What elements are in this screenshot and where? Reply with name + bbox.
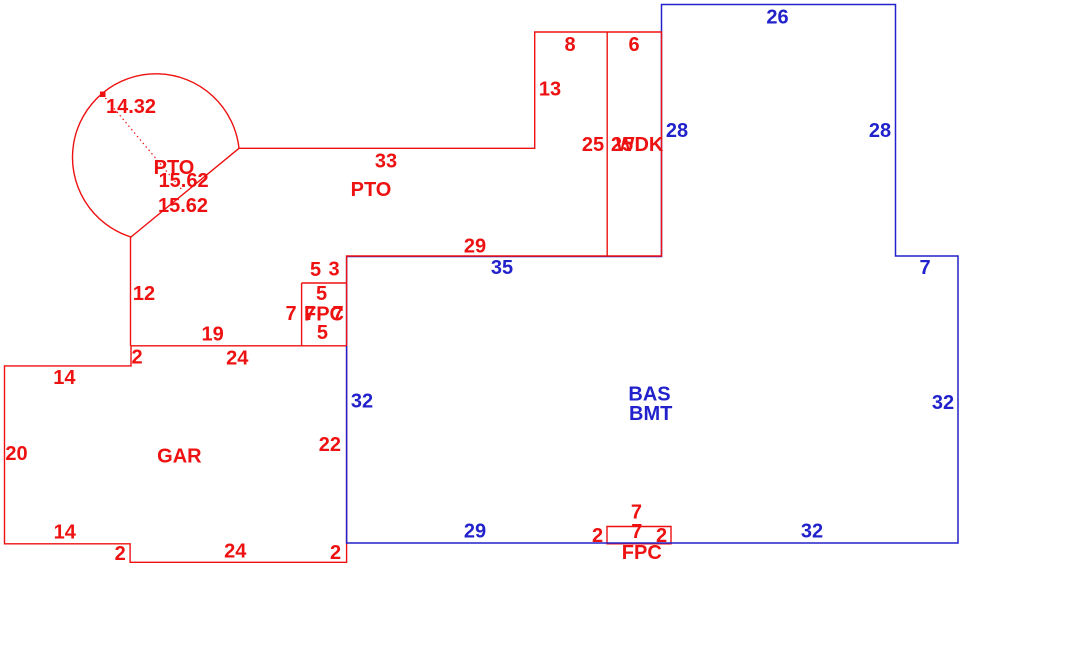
svg-text:13: 13 (539, 79, 561, 101)
svg-text:15.62: 15.62 (159, 170, 209, 192)
svg-text:14.32: 14.32 (106, 96, 156, 118)
svg-text:33: 33 (375, 151, 397, 173)
svg-text:7: 7 (332, 303, 343, 325)
svg-text:GAR: GAR (157, 445, 202, 467)
svg-text:25: 25 (582, 134, 604, 156)
svg-text:32: 32 (932, 392, 954, 414)
svg-text:FPC: FPC (622, 542, 662, 564)
svg-text:24: 24 (224, 540, 247, 562)
svg-text:6: 6 (628, 34, 639, 56)
svg-text:7: 7 (285, 303, 296, 325)
svg-text:28: 28 (666, 120, 688, 142)
svg-text:2: 2 (115, 543, 126, 565)
svg-text:28: 28 (869, 120, 891, 142)
svg-text:15.62: 15.62 (158, 195, 208, 217)
svg-text:5: 5 (317, 322, 328, 344)
svg-text:2: 2 (592, 525, 603, 547)
svg-text:19: 19 (201, 324, 223, 346)
svg-text:14: 14 (53, 367, 76, 389)
svg-text:3: 3 (328, 259, 339, 281)
svg-text:7: 7 (631, 521, 642, 543)
svg-text:29: 29 (464, 236, 486, 258)
svg-text:12: 12 (133, 283, 155, 305)
svg-text:WDK: WDK (616, 134, 664, 156)
svg-text:26: 26 (766, 7, 788, 29)
svg-text:24: 24 (226, 348, 249, 370)
svg-text:7: 7 (919, 257, 930, 279)
svg-text:5: 5 (316, 283, 327, 305)
svg-text:5: 5 (310, 259, 321, 281)
svg-text:32: 32 (801, 521, 823, 543)
svg-text:35: 35 (491, 257, 513, 279)
svg-text:20: 20 (5, 443, 27, 465)
svg-text:2: 2 (330, 542, 341, 564)
svg-text:8: 8 (564, 34, 575, 56)
svg-text:2: 2 (131, 346, 142, 368)
svg-text:BMT: BMT (629, 403, 672, 425)
svg-text:7: 7 (304, 303, 315, 325)
svg-text:32: 32 (351, 391, 373, 413)
svg-text:BAS: BAS (628, 383, 670, 405)
svg-text:PTO: PTO (351, 179, 392, 201)
svg-text:29: 29 (464, 521, 486, 543)
svg-text:14: 14 (54, 521, 77, 543)
svg-text:22: 22 (319, 434, 341, 456)
